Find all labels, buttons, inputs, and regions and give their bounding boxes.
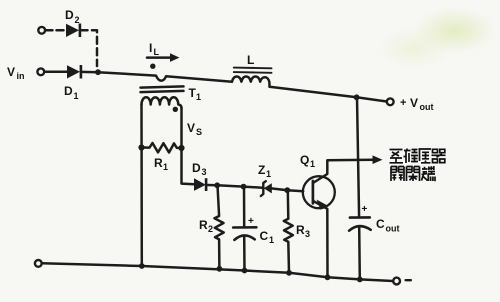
svg-text:L: L <box>154 47 160 57</box>
svg-text:1: 1 <box>74 91 79 101</box>
svg-text:1: 1 <box>196 92 201 102</box>
svg-text:Z: Z <box>258 163 265 177</box>
svg-text:+: + <box>400 97 406 109</box>
svg-text:V: V <box>410 96 418 110</box>
svg-text:C: C <box>376 217 385 231</box>
svg-text:C: C <box>260 229 269 243</box>
svg-text:in: in <box>17 71 25 81</box>
svg-text:R: R <box>199 218 208 232</box>
svg-text:out: out <box>386 224 400 234</box>
svg-text:Q: Q <box>300 153 309 167</box>
svg-text:R: R <box>296 223 305 237</box>
svg-text:D: D <box>192 161 201 175</box>
svg-text:1: 1 <box>269 235 274 245</box>
svg-text:I: I <box>149 41 152 55</box>
svg-text:3: 3 <box>305 229 310 239</box>
svg-text:V: V <box>7 65 15 79</box>
svg-text:D: D <box>65 8 74 22</box>
svg-text:R: R <box>154 156 163 170</box>
svg-text:2: 2 <box>208 224 213 234</box>
svg-text:3: 3 <box>202 167 207 177</box>
svg-text:2: 2 <box>75 15 80 25</box>
svg-text:out: out <box>420 102 434 112</box>
svg-text:V: V <box>187 121 195 135</box>
svg-text:+: + <box>362 204 368 215</box>
svg-text:1: 1 <box>310 159 315 169</box>
svg-text:S: S <box>196 127 202 137</box>
svg-text:D: D <box>64 84 73 98</box>
svg-text:L: L <box>247 53 254 67</box>
svg-text:1: 1 <box>266 169 271 179</box>
svg-text:1: 1 <box>163 162 168 172</box>
svg-text:+: + <box>248 216 254 227</box>
